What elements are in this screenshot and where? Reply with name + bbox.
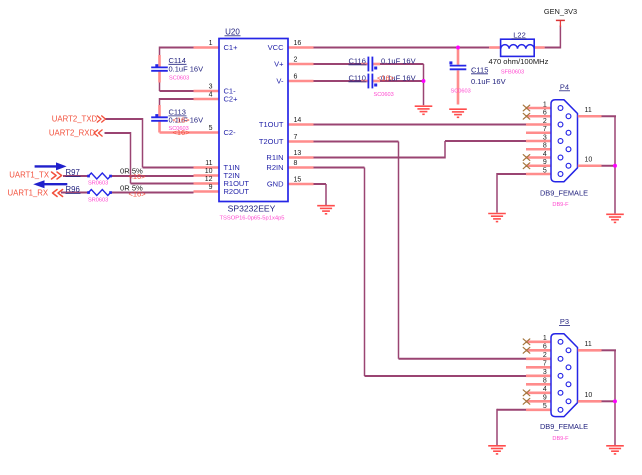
svg-text:16: 16 <box>294 40 302 47</box>
svg-text:11: 11 <box>205 160 212 167</box>
svg-text:0.1uF 16V: 0.1uF 16V <box>381 56 416 65</box>
svg-text:4: 4 <box>543 151 547 158</box>
svg-text:2: 2 <box>294 57 298 64</box>
svg-text:13: 13 <box>294 150 302 157</box>
svg-text:9: 9 <box>543 159 547 166</box>
svg-text:C110: C110 <box>349 73 366 82</box>
svg-text:1: 1 <box>209 40 213 47</box>
svg-text:R2OUT: R2OUT <box>224 187 250 196</box>
svg-text:SC0603: SC0603 <box>374 92 394 98</box>
svg-text:<16>: <16> <box>173 116 191 125</box>
svg-text:8: 8 <box>543 378 547 385</box>
svg-text:10: 10 <box>205 168 213 175</box>
svg-text:8: 8 <box>543 143 547 150</box>
svg-text:10: 10 <box>585 392 593 399</box>
svg-text:C114: C114 <box>169 56 186 65</box>
svg-text:SFB0603: SFB0603 <box>501 69 524 75</box>
svg-text:8: 8 <box>294 160 298 167</box>
svg-text:DB9_FEMALE: DB9_FEMALE <box>540 188 588 197</box>
svg-text:DB9_FEMALE: DB9_FEMALE <box>540 422 588 431</box>
svg-text:U20: U20 <box>225 27 240 36</box>
svg-text:0.1uF 16V: 0.1uF 16V <box>471 77 506 86</box>
svg-text:6: 6 <box>543 344 547 351</box>
svg-text:15: 15 <box>294 177 302 184</box>
svg-text:SP3232EEY: SP3232EEY <box>228 204 276 214</box>
svg-text:0.1uF 16V: 0.1uF 16V <box>169 65 204 74</box>
svg-text:4: 4 <box>543 386 547 393</box>
svg-text:V+: V+ <box>274 60 284 69</box>
svg-text:11: 11 <box>585 341 592 348</box>
svg-text:7: 7 <box>543 361 547 368</box>
svg-text:6: 6 <box>543 110 547 117</box>
svg-text:1: 1 <box>543 101 547 108</box>
svg-text:12: 12 <box>205 176 213 183</box>
svg-text:5: 5 <box>543 403 547 410</box>
svg-text:C115: C115 <box>471 65 488 74</box>
svg-text:5: 5 <box>209 125 213 132</box>
svg-text:P4: P4 <box>560 82 569 91</box>
svg-text:2: 2 <box>543 118 547 125</box>
svg-text:GEN_3V3: GEN_3V3 <box>544 7 577 16</box>
svg-text:9: 9 <box>543 395 547 402</box>
svg-text:DB9-F: DB9-F <box>552 202 569 208</box>
svg-text:470 ohm/100MHz: 470 ohm/100MHz <box>489 57 549 66</box>
svg-text:T1OUT: T1OUT <box>259 120 284 129</box>
svg-text:UART2_TXD: UART2_TXD <box>52 114 98 123</box>
svg-text:P3: P3 <box>560 317 569 326</box>
svg-text:V-: V- <box>276 77 284 86</box>
svg-text:C116: C116 <box>349 56 366 65</box>
svg-text:SR0603: SR0603 <box>88 197 108 203</box>
svg-text:L22: L22 <box>513 30 526 39</box>
svg-text:10: 10 <box>585 156 593 163</box>
svg-text:4: 4 <box>209 92 213 99</box>
svg-text:UART2_RXD: UART2_RXD <box>49 128 96 137</box>
svg-text:3: 3 <box>543 134 547 141</box>
svg-text:R97: R97 <box>66 168 80 177</box>
svg-text:T2OUT: T2OUT <box>259 137 284 146</box>
svg-text:1: 1 <box>543 335 547 342</box>
svg-text:GND: GND <box>267 180 284 189</box>
svg-text:<16>: <16> <box>173 128 191 137</box>
svg-text:UART1_RX: UART1_RX <box>8 189 49 198</box>
svg-text:C1+: C1+ <box>224 43 239 52</box>
svg-text:<16>: <16> <box>129 189 147 198</box>
svg-text:C2+: C2+ <box>224 95 239 104</box>
svg-text:<16>: <16> <box>129 172 147 181</box>
svg-text:14: 14 <box>294 117 302 124</box>
svg-text:2: 2 <box>543 352 547 359</box>
svg-text:SR0603: SR0603 <box>88 180 108 186</box>
svg-text:R1IN: R1IN <box>266 153 283 162</box>
svg-text:5: 5 <box>543 167 547 174</box>
svg-text:7: 7 <box>294 134 298 141</box>
svg-text:3: 3 <box>543 369 547 376</box>
svg-text:R96: R96 <box>66 185 80 194</box>
svg-text:R2IN: R2IN <box>266 163 283 172</box>
svg-text:UART1_TX: UART1_TX <box>9 171 50 180</box>
svg-text:11: 11 <box>585 107 592 114</box>
svg-text:9: 9 <box>209 184 213 191</box>
svg-text:<16>: <16> <box>377 74 395 83</box>
svg-text:6: 6 <box>294 74 298 81</box>
svg-text:SC0603: SC0603 <box>169 75 189 81</box>
svg-text:TSSOP16-0p65-5p1x4p5: TSSOP16-0p65-5p1x4p5 <box>219 216 284 222</box>
svg-text:SC0603: SC0603 <box>451 88 471 94</box>
svg-text:3: 3 <box>209 84 213 91</box>
svg-text:7: 7 <box>543 126 547 133</box>
svg-text:C2-: C2- <box>224 128 237 137</box>
svg-text:VCC: VCC <box>268 43 284 52</box>
svg-text:DB9-F: DB9-F <box>552 436 569 442</box>
